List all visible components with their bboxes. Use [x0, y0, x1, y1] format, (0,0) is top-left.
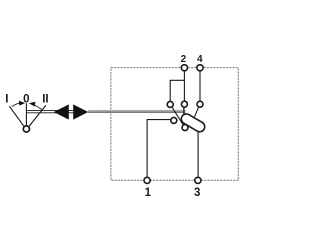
svg-text:II: II	[42, 93, 48, 105]
shaft double line	[26, 110, 73, 112]
return arrow right	[29, 102, 43, 110]
shaft grey bar	[88, 110, 185, 113]
wire contact C to roller	[195, 107, 199, 117]
return arrow left	[12, 101, 25, 107]
svg-text:1: 1	[145, 187, 152, 199]
terminal 3	[195, 177, 201, 183]
contact A	[167, 101, 173, 107]
svg-text:0: 0	[23, 93, 29, 105]
contact C	[197, 101, 203, 107]
terminal 1	[144, 177, 150, 183]
wire terminal4 to contact C	[199, 71, 201, 101]
svg-text:4: 4	[197, 54, 203, 65]
contact D	[171, 117, 177, 123]
svg-text:I: I	[5, 93, 8, 105]
svg-text:3: 3	[194, 187, 200, 199]
actuator pivot	[23, 126, 29, 132]
wire contact A to contact E	[172, 108, 183, 125]
actuator II-position line	[29, 105, 46, 126]
enclosure dashed box S1	[111, 68, 238, 181]
terminal 2	[181, 65, 187, 71]
wire terminal3 to roller	[197, 129, 199, 177]
wire terminal1 to contact D	[147, 120, 171, 177]
actuator 0-position line	[25, 103, 27, 125]
contact B	[181, 101, 187, 107]
wire contact B stem	[183, 107, 185, 114]
actuator I-position line	[9, 106, 24, 126]
svg-text:2: 2	[181, 54, 187, 65]
wire terminal2 to contact B	[183, 71, 185, 101]
mechanical coupling triangle right	[73, 104, 88, 119]
contact E	[182, 125, 188, 131]
roller contact	[186, 119, 199, 127]
terminal 4	[197, 65, 203, 71]
mechanical coupling triangle left	[54, 104, 69, 119]
wire branch terminal2 to contact A	[170, 80, 184, 101]
